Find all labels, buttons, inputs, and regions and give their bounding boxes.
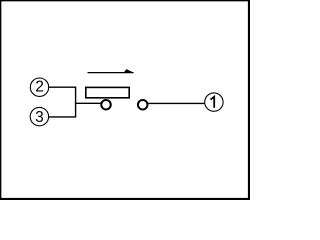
arrow operating direction: [88, 69, 134, 73]
terminal 1: [205, 93, 223, 111]
fixed contact: [138, 100, 148, 110]
wire terminal 3 to junction: [48, 116, 76, 118]
wire junction to moving contact: [75, 102, 103, 104]
terminal 3: [30, 107, 48, 126]
terminal 2: [30, 78, 48, 96]
wire fixed contact to terminal 1: [146, 102, 205, 104]
svg-text:3: 3: [35, 109, 44, 126]
moving contact: [101, 100, 111, 110]
wire junction vertical: [75, 87, 77, 118]
actuator slider rectangle: [86, 87, 129, 97]
svg-text:2: 2: [35, 79, 44, 96]
wire terminal 2 to junction: [48, 86, 76, 88]
